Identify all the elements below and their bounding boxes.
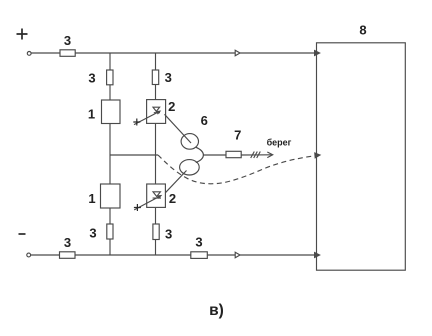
- wire bottom: resistor to arrow: [207, 254, 236, 256]
- arrow on bottom wire: [235, 252, 240, 258]
- svg-text:3: 3: [88, 71, 95, 86]
- svg-text:1: 1: [88, 191, 95, 206]
- node minus terminal label: [19, 233, 26, 235]
- svg-text:берег: берег: [267, 138, 292, 148]
- terminal circle bottom-left: [27, 253, 31, 257]
- transducer 6 lower lead: [165, 171, 186, 193]
- svg-text:в): в): [209, 302, 224, 319]
- wire left column: resistor to unit 1: [109, 85, 111, 100]
- wire left column: unit 1 to lower unit 1: [109, 124, 111, 185]
- wire right column: unit 2 to resistor: [155, 208, 157, 224]
- svg-text:1: 1: [88, 107, 95, 122]
- unit 8 (shore equipment box): [317, 43, 406, 270]
- arrowhead into unit 8 (top): [315, 51, 320, 56]
- resistor R3 lower-left vertical: [107, 224, 113, 239]
- diode of upper unit 2: [153, 107, 160, 113]
- unit 1 upper: [102, 100, 121, 124]
- resistor R3 upper-left vertical: [107, 70, 113, 85]
- wire left column: unit 1 to resistor: [109, 208, 111, 224]
- svg-text:2: 2: [169, 191, 176, 206]
- diode of lower unit 2: [153, 192, 161, 198]
- transducer 6 upper loop: [181, 134, 198, 150]
- wire bottom: arrow to unit 8: [240, 254, 317, 256]
- transducer 6 middle cusp: [196, 147, 204, 162]
- resistor R3 upper-right vertical: [152, 70, 158, 85]
- unit 2 lower (controlled rectifier box): [147, 184, 166, 207]
- wire top: resistor to arrow: [75, 52, 236, 54]
- resistor 7: [226, 151, 241, 157]
- svg-text:3: 3: [165, 226, 172, 241]
- hatch marks on shore wire: [251, 152, 261, 159]
- wire right column: unit 2 to lower unit 2: [155, 124, 157, 184]
- transducer 6 lower loop: [180, 160, 200, 175]
- node plus terminal label: [17, 29, 28, 40]
- unit 1 lower: [101, 184, 121, 208]
- terminal circle top-left: [27, 52, 31, 56]
- control arrow of upper unit 2: [134, 111, 160, 124]
- wire top: arrow to unit 8: [240, 52, 317, 54]
- resistor R3 lower-right vertical: [153, 224, 159, 240]
- wire right column: top bus to resistor: [155, 53, 157, 70]
- svg-text:6: 6: [201, 113, 208, 128]
- wire resistor 7 to shore arrow: [241, 154, 272, 156]
- arrowhead into unit 8 (bottom): [315, 253, 320, 258]
- arrowhead of dashed path into unit 8: [315, 153, 320, 158]
- wire right column: resistor to unit 2: [155, 85, 157, 100]
- svg-text:3: 3: [89, 226, 96, 241]
- svg-text:3: 3: [195, 235, 202, 250]
- wire right column: resistor to bottom bus: [155, 240, 157, 256]
- svg-text:3: 3: [64, 235, 71, 250]
- shore arrowhead: [267, 152, 272, 158]
- unit 2 upper (controlled rectifier box): [147, 100, 166, 124]
- svg-text:2: 2: [168, 99, 175, 114]
- svg-text:3: 3: [165, 70, 172, 85]
- svg-text:7: 7: [234, 127, 241, 142]
- wire top: terminal to resistor: [31, 52, 60, 54]
- plus sign on upper control arrow: [133, 119, 140, 126]
- wire left column: resistor to bottom bus: [109, 239, 111, 255]
- control arrow of lower unit 2: [134, 196, 161, 210]
- wire bottom: terminal to resistor: [31, 254, 60, 256]
- wire transducer to resistor 7: [203, 154, 226, 156]
- wire middle connector between columns: [110, 154, 158, 156]
- resistor R3 top-left: [60, 50, 75, 57]
- wire bottom: resistor to resistor: [75, 254, 191, 256]
- transducer 6 upper lead: [165, 114, 192, 143]
- svg-text:3: 3: [64, 33, 71, 48]
- wire left column: top bus to resistor: [109, 53, 111, 70]
- plus sign on lower control arrow: [134, 204, 141, 211]
- dashed acoustic path to unit 8: [158, 155, 316, 184]
- resistor R3 bottom-right: [191, 252, 208, 259]
- arrow on top wire: [235, 50, 240, 56]
- resistor R3 bottom-left: [60, 252, 76, 258]
- svg-text:8: 8: [359, 23, 366, 38]
